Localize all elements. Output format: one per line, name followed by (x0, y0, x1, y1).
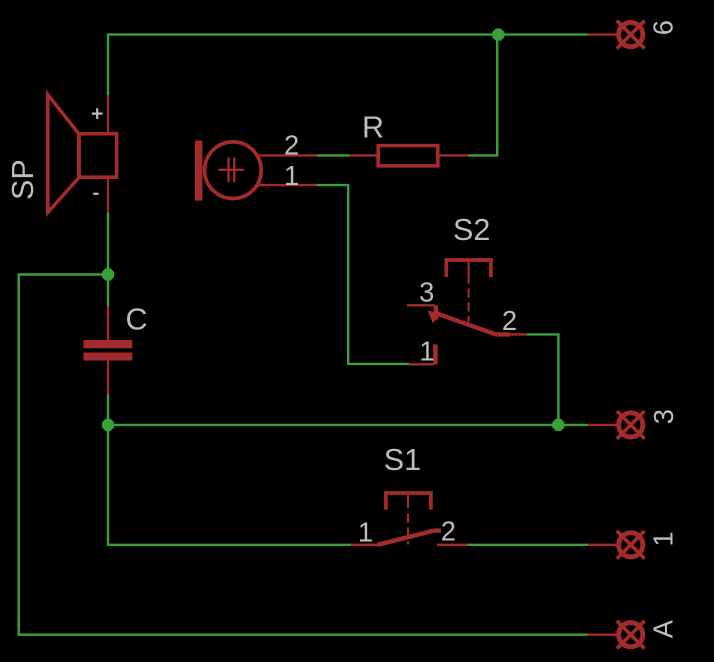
wire mid junction down to S1 pin1 (108, 425, 352, 545)
S2 button cap (446, 260, 491, 277)
svg-text:2: 2 (502, 305, 517, 336)
svg-text:3: 3 (419, 276, 434, 307)
svg-text:1: 1 (284, 160, 299, 191)
S2 pin 1 (409, 363, 435, 365)
svg-text:A: A (648, 619, 679, 638)
svg-text:S2: S2 (453, 213, 490, 247)
S1 button cap (386, 493, 431, 510)
mic pin 2 (258, 154, 316, 156)
switch S2 (407, 260, 527, 364)
S2 stem (468, 260, 470, 284)
wire net top: speaker+ to terminal 6 (108, 35, 588, 96)
svg-text:1: 1 (647, 531, 678, 546)
S1 lever (378, 531, 442, 545)
terminal A (588, 621, 645, 649)
S1 stem (407, 493, 409, 508)
microphone (195, 141, 316, 201)
speaker minus sign (93, 193, 98, 195)
junction mid net left (102, 419, 114, 431)
wire mic pin2 to resistor (316, 154, 349, 156)
svg-text:6: 6 (647, 20, 678, 35)
terminal 1 (588, 531, 645, 559)
S1 pin 2 (437, 544, 468, 546)
wire resistor right to top net (468, 35, 497, 156)
speaker SP (48, 95, 117, 213)
resistor R (350, 146, 469, 166)
svg-text:S1: S1 (384, 443, 421, 477)
svg-text:1: 1 (358, 516, 373, 547)
speaker plus sign (92, 108, 103, 119)
svg-text:2: 2 (441, 515, 456, 546)
svg-text:SP: SP (6, 159, 40, 200)
terminal 6 (588, 21, 645, 49)
junction mid net right (552, 419, 564, 431)
wire mic pin1 to S2 pin1 (316, 185, 409, 364)
junction speaker/cap/left loop (102, 268, 114, 280)
svg-text:1: 1 (419, 336, 434, 367)
wire S2 pin2 down to mid net (527, 334, 559, 425)
wire speaker- down to junction (107, 212, 109, 307)
mic pin 1 (258, 184, 316, 186)
switch S1 (351, 493, 468, 545)
S2 pin 2 (496, 333, 527, 335)
wire mid net to terminal 3 (108, 424, 588, 426)
svg-text:R: R (362, 111, 384, 145)
wire S1 pin2 to terminal 1 (468, 544, 589, 546)
S2 pin 3 (407, 304, 435, 306)
wire capacitor bottom to mid junction (107, 394, 109, 425)
terminal 3 (588, 411, 645, 439)
S2 lever (437, 314, 510, 335)
svg-text:C: C (126, 303, 148, 337)
capacitor C (84, 306, 133, 394)
S1 pin 1 (351, 544, 381, 546)
svg-text:2: 2 (284, 130, 299, 161)
svg-text:3: 3 (648, 409, 679, 424)
wire left loop to terminal A (19, 275, 588, 635)
junction top net (492, 29, 504, 41)
